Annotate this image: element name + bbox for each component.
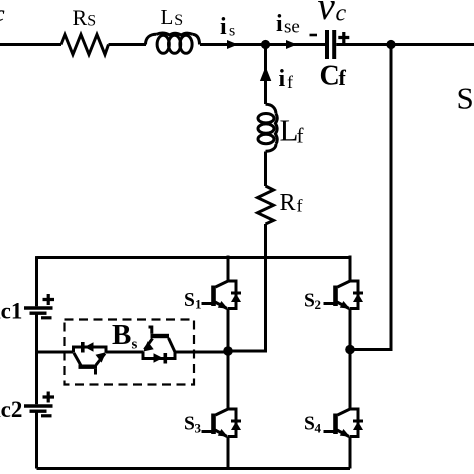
left unit emitter arrowhead <box>96 352 107 362</box>
wire Rf down to left leg midpoint (crosses top rail) <box>228 224 266 351</box>
svg-text:s: s <box>229 23 235 40</box>
wire midpoint to S4 collector <box>349 350 352 384</box>
wire between Bs units <box>106 351 143 354</box>
wire Cf to node B <box>336 43 474 46</box>
svg-text:S: S <box>457 81 474 116</box>
svg-text:C: C <box>320 61 340 92</box>
svg-text:S: S <box>184 290 195 311</box>
wire S1 emitter to midpoint <box>227 309 230 352</box>
svg-text:3: 3 <box>195 421 202 436</box>
svg-text:R: R <box>280 190 296 216</box>
transistor S3 <box>202 384 242 437</box>
svg-text:4: 4 <box>315 421 322 436</box>
wire S3 emitter to bottom rail <box>227 437 230 469</box>
node B junction dot <box>386 40 395 49</box>
wire middle rail to Bs <box>37 351 74 354</box>
capacitor plus sign <box>338 32 349 43</box>
svg-text:1: 1 <box>195 297 202 312</box>
current arrow is <box>227 40 238 49</box>
battery Vdc2 plus sign <box>43 392 55 403</box>
wire bridge left rail upper <box>35 256 38 306</box>
wire S4 emitter to bottom rail <box>349 437 352 469</box>
right unit diode branch wire <box>143 352 175 359</box>
svg-text:i: i <box>276 11 283 37</box>
transistor S2 <box>324 256 364 309</box>
wire bridge bottom rail <box>37 467 351 470</box>
svg-text:B: B <box>112 319 131 351</box>
right unit diode triangle <box>154 353 164 362</box>
svg-text:s: s <box>132 337 138 353</box>
switch Bs right IGBT <box>143 327 175 364</box>
inductor Lf <box>258 104 277 151</box>
node left midpoint junction dot <box>223 346 233 356</box>
right unit emitter arrowhead <box>143 341 154 351</box>
svg-text:S: S <box>87 13 96 30</box>
svg-text:S: S <box>304 291 315 312</box>
capacitor minus sign <box>310 34 318 37</box>
svg-text:f: f <box>287 72 293 92</box>
transistor S4 <box>324 384 364 437</box>
svg-text:S: S <box>184 414 195 435</box>
resistor RS <box>61 35 109 55</box>
wire between RS and LS <box>109 43 147 46</box>
node A junction dot <box>261 40 270 49</box>
wire node B down to right leg midpoint <box>350 45 391 350</box>
svg-text:2: 2 <box>315 297 322 312</box>
dashed box Bs <box>65 320 195 385</box>
resistor Rf <box>258 186 274 224</box>
svg-text:dc2: dc2 <box>0 397 22 422</box>
battery Vdc2 minus sign <box>41 414 52 417</box>
current arrow if <box>260 67 271 82</box>
svg-text:c: c <box>336 1 347 27</box>
wire Lf to Rf <box>264 152 267 187</box>
wire S2 emitter to midpoint <box>349 309 352 350</box>
battery Vdc1 <box>24 308 53 313</box>
wire bridge top rail <box>37 256 351 259</box>
right unit base lead <box>149 327 152 334</box>
right unit diode cathode bar <box>164 353 168 364</box>
wire main top left <box>0 43 61 46</box>
right unit collector diagonal <box>169 338 176 352</box>
svg-text:S: S <box>304 414 315 435</box>
wire filter branch upper <box>264 45 267 105</box>
svg-text:f: f <box>297 124 304 148</box>
left unit diode branch wire <box>74 347 107 353</box>
svg-text:f: f <box>339 65 347 90</box>
svg-text:v: v <box>318 0 336 28</box>
left unit diode triangle <box>85 342 94 351</box>
battery Vdc1 plus sign <box>43 294 55 305</box>
left unit base bar <box>79 365 98 369</box>
svg-text:S: S <box>174 12 183 29</box>
right unit emitter diagonal <box>145 339 153 350</box>
right unit base bar <box>151 334 170 338</box>
svg-text:i: i <box>279 66 286 92</box>
svg-text:c: c <box>0 1 5 26</box>
inductor LS <box>146 33 200 53</box>
capacitor Cf <box>327 30 334 59</box>
svg-text:L: L <box>161 5 174 29</box>
svg-text:dc1: dc1 <box>0 299 22 324</box>
svg-text:i: i <box>220 14 227 40</box>
battery Vdc2 <box>24 406 53 411</box>
wire midpoint to S3 collector <box>227 351 230 384</box>
transistor S1 <box>202 256 242 309</box>
left unit collector diagonal <box>74 353 81 366</box>
node right midpoint junction dot <box>345 345 355 355</box>
wire Bs to left leg midpoint <box>175 351 228 354</box>
left unit diode cathode bar <box>81 342 85 353</box>
wire bridge left rail lower <box>35 411 38 468</box>
svg-text:f: f <box>297 196 303 216</box>
svg-text:R: R <box>73 5 88 30</box>
left unit base lead <box>94 369 97 375</box>
wire LS to node A <box>200 43 326 46</box>
switch Bs left IGBT <box>74 342 107 375</box>
current arrow ise <box>286 40 297 49</box>
left unit emitter diagonal <box>96 354 105 366</box>
wire bridge left rail middle <box>35 313 38 404</box>
battery Vdc1 minus sign <box>41 316 52 319</box>
svg-text:se: se <box>284 17 300 38</box>
